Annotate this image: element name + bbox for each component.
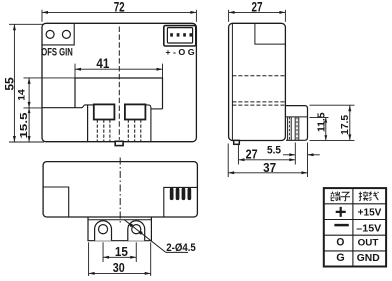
table row 2: minus symbol xyxy=(334,224,348,227)
table row 1: plus symbol xyxy=(336,207,346,217)
right extension lines xyxy=(310,104,355,106)
front view: core block top xyxy=(75,78,163,109)
dimension 17.5: line and arrows xyxy=(349,105,351,140)
mounting hole right xyxy=(132,225,141,234)
svg-text:27: 27 xyxy=(246,147,258,161)
bottom view: centerline (dash-dot) xyxy=(119,158,121,225)
side view: inner left wall line xyxy=(231,24,233,140)
side view: pins dashed centers xyxy=(288,117,290,140)
dimension 55: line and arrows xyxy=(13,24,15,142)
pin dashed lines left group xyxy=(96,120,98,142)
dimension 27 top: line and arrows xyxy=(229,11,286,13)
connector pin 1 xyxy=(170,33,173,36)
svg-text:O: O xyxy=(336,236,344,248)
svg-text:15.5: 15.5 xyxy=(18,112,30,138)
front view: potentiometer box xyxy=(42,23,74,45)
front view: centerline (dashed) xyxy=(118,27,120,140)
front view: bottom tab xyxy=(115,141,123,145)
dimension 30: extension lines xyxy=(88,242,90,276)
table header: character XIAN (wiring) xyxy=(369,192,371,201)
svg-text:17.5: 17.5 xyxy=(340,114,351,134)
dimension 5.5: tails and outside arrows xyxy=(283,154,295,156)
table header: character DUAN (terminal) xyxy=(330,192,334,201)
dimension 72: line and arrows xyxy=(42,11,196,13)
table header: character JIE (wiring) xyxy=(359,192,362,201)
dimension 41: line and arrows xyxy=(75,68,163,70)
table header: character ZI (terminal) xyxy=(341,192,350,200)
side view: terminal block inner top line xyxy=(285,116,307,118)
dimension 27 top: extension lines xyxy=(228,10,230,22)
svg-text:+ - O G: + - O G xyxy=(165,48,194,57)
front view: terminal block right (bold) xyxy=(125,104,145,119)
vent slot 3 xyxy=(182,188,185,199)
leader dots on hole xyxy=(130,224,133,227)
dimension 27 bottom: line and arrows xyxy=(238,159,295,161)
dimension 37: line and arrows xyxy=(228,172,307,174)
dimension 30: line and arrows xyxy=(89,272,151,274)
front view: connector box inner xyxy=(167,28,192,43)
svg-text:41: 41 xyxy=(96,56,109,71)
bottom view: left step xyxy=(43,187,69,217)
vent slot 2 xyxy=(176,188,179,199)
svg-text:G: G xyxy=(336,252,345,264)
leader line 2-04.5 xyxy=(124,220,166,253)
bottom view: mounting bracket sides and bottom xyxy=(88,217,151,241)
svg-text:OFS GIN: OFS GIN xyxy=(41,46,73,58)
bottom view: body outline xyxy=(43,162,197,217)
svg-text:37: 37 xyxy=(263,161,276,175)
connector pin 2 xyxy=(177,33,180,36)
dimension 72: extension lines xyxy=(41,10,43,22)
mounting hole left xyxy=(99,225,108,234)
front view: connector box outer xyxy=(164,26,196,46)
connector pin 4 xyxy=(190,33,193,36)
svg-text:–15V: –15V xyxy=(356,222,381,234)
svg-text:72: 72 xyxy=(114,0,125,14)
dimension 41: extension lines xyxy=(74,64,76,78)
svg-text:30: 30 xyxy=(113,261,125,275)
svg-text:55: 55 xyxy=(4,77,16,91)
front view: right ledge xyxy=(151,108,163,110)
dimension 15: extension lines xyxy=(102,242,104,262)
svg-text:OUT: OUT xyxy=(358,236,379,247)
front view: pin housing left side xyxy=(87,105,89,141)
pin dashed lines right group xyxy=(127,120,129,142)
bottom view: bracket web line xyxy=(88,219,151,221)
svg-text:GND: GND xyxy=(357,253,380,264)
dimension 14: line and arrows xyxy=(28,78,30,142)
dimension 15.5: arrows xyxy=(28,108,31,113)
svg-text:27: 27 xyxy=(252,0,263,14)
left extension lines xyxy=(9,23,43,25)
mounting tab left xyxy=(95,221,112,241)
svg-text:+15V: +15V xyxy=(358,206,382,218)
svg-text:2-Ø4.5: 2-Ø4.5 xyxy=(166,242,196,254)
vent slot 1 xyxy=(170,188,173,199)
connector pin 3 xyxy=(183,33,186,36)
side view: top-right notch xyxy=(255,23,286,44)
svg-text:5.5: 5.5 xyxy=(267,144,281,156)
side view: hidden line (dashed) upper xyxy=(232,75,285,77)
mounting tab right xyxy=(128,221,145,241)
svg-text:11.5: 11.5 xyxy=(317,112,328,132)
terminal table: row lines xyxy=(324,203,386,205)
bottom extension lines of side view xyxy=(227,144,229,178)
terminal table: column divider xyxy=(352,188,354,266)
front view: left ledge with step xyxy=(42,105,94,108)
front view: housing top right + corner xyxy=(145,105,151,141)
side view: pins solid edges xyxy=(287,117,289,140)
potentiometer GIN xyxy=(62,30,70,38)
bottom view: connector recess xyxy=(164,187,198,217)
side view: body outline xyxy=(229,23,286,140)
vent slot 4 xyxy=(188,188,191,199)
front view: sensor body outline xyxy=(42,23,196,141)
front view: terminal block left (bold) xyxy=(94,104,115,119)
dimension 15: line and arrows xyxy=(103,256,136,258)
terminal table: outer border xyxy=(324,188,386,266)
dimension 11.5: line and arrows xyxy=(325,117,327,140)
svg-text:15: 15 xyxy=(115,245,128,259)
potentiometer OFS xyxy=(46,30,54,38)
side view: hidden lines (dashed) lower pair xyxy=(232,101,285,103)
side view: terminal block outline xyxy=(285,106,307,141)
side view: mounting foot xyxy=(234,140,240,144)
svg-text:14: 14 xyxy=(17,88,28,100)
